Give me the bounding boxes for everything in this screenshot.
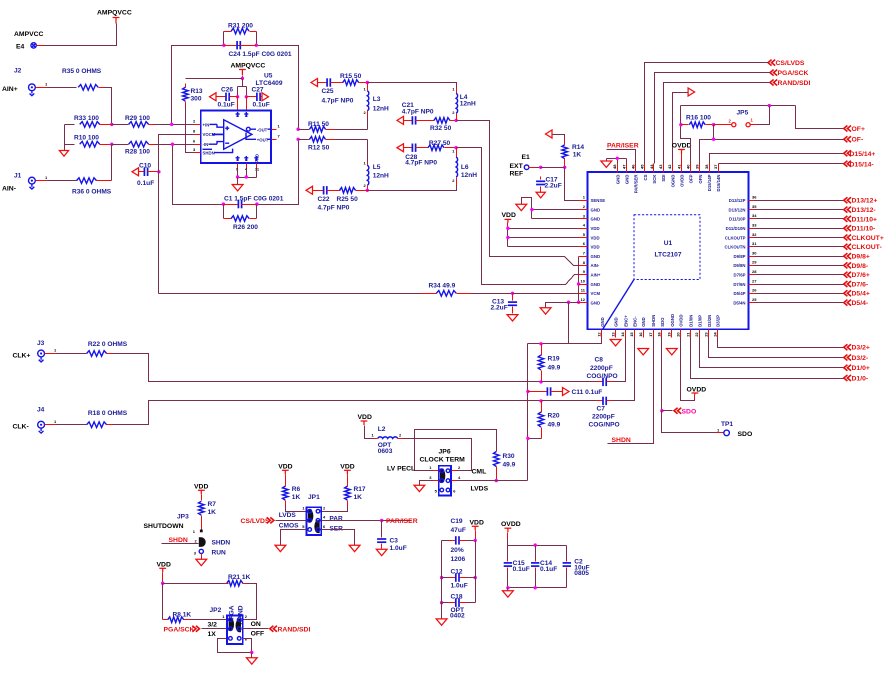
wire OVDD cap rail bottom (508, 587, 567, 589)
wire VOCM to C10 node and VCM net (159, 135, 195, 294)
svg-text:SCK: SCK (652, 174, 657, 184)
U1 pin 5 VDD (left) (579, 237, 588, 239)
svg-text:CLKOUTN: CLKOUTN (724, 245, 745, 250)
svg-text:ENC+: ENC+ (623, 315, 628, 327)
svg-text:SDO: SDO (660, 317, 665, 327)
svg-text:R7: R7 (208, 501, 217, 508)
net CLKOUT- (749, 246, 755, 248)
svg-text:1206: 1206 (451, 556, 466, 563)
node L5/R25 (366, 189, 369, 192)
svg-text:4.7pF NP0: 4.7pF NP0 (402, 109, 434, 116)
svg-text:OF+: OF+ (852, 126, 865, 133)
net D1/0- (691, 338, 844, 379)
svg-text:0.1uF: 0.1uF (513, 566, 530, 573)
U1 pin 41 OVDD (top) (681, 164, 683, 173)
svg-text:D7/6P: D7/6P (734, 273, 746, 278)
svg-text:J1: J1 (14, 173, 22, 180)
svg-text:SHUTDOWN: SHUTDOWN (144, 523, 184, 530)
svg-text:VDD: VDD (340, 463, 354, 470)
svg-text:2200pF: 2200pF (590, 365, 613, 372)
pin 6 -IN stub (195, 144, 201, 146)
svg-text:PAR/ISER: PAR/ISER (607, 142, 639, 149)
ADC U1 LTC2107 (588, 172, 749, 329)
svg-text:AMPVCC: AMPVCC (14, 31, 44, 38)
net D1/0+ (700, 338, 844, 368)
svg-text:JP6: JP6 (439, 448, 451, 455)
node C13/VCM (511, 292, 514, 295)
wire L3 bottom to -OUT row (R11) (367, 117, 369, 130)
svg-text:C25: C25 (322, 88, 334, 95)
svg-text:40: 40 (685, 164, 690, 169)
svg-text:R16 100: R16 100 (686, 115, 711, 122)
node VDD/R21/R8 (161, 582, 164, 585)
svg-text:D1/0-: D1/0- (852, 376, 869, 383)
wire L2 to JP6 pin 2 CML (404, 439, 472, 471)
svg-text:D1/0+: D1/0+ (852, 365, 870, 372)
svg-text:L2: L2 (378, 426, 386, 433)
svg-text:C11 0.1uF: C11 0.1uF (572, 389, 603, 396)
svg-text:D9/8+: D9/8+ (852, 254, 870, 261)
svg-text:0603: 0603 (378, 448, 393, 455)
wire OF- from R16/JP5 to pin 39 OFN and label (700, 125, 844, 164)
svg-text:VDD: VDD (470, 519, 484, 526)
svg-text:GND: GND (615, 175, 620, 185)
svg-text:1X: 1X (208, 631, 217, 638)
pin 7 +OUT stub (272, 139, 277, 141)
svg-text:CS/LVDS: CS/LVDS (241, 518, 270, 525)
svg-text:D3/2-: D3/2- (852, 355, 869, 362)
svg-text:GND: GND (591, 254, 601, 259)
net RAND/SDI to pin 43 (770, 80, 777, 86)
U1 pin 8 AIN- (left) (579, 265, 588, 267)
svg-text:JP5: JP5 (737, 110, 749, 117)
svg-text:COG/NPO: COG/NPO (589, 422, 620, 429)
ground (U1 pins 48,47) (601, 161, 612, 167)
svg-text:D11/D10N: D11/D10N (726, 226, 746, 231)
svg-text:AIN-: AIN- (591, 263, 600, 268)
wire VDD to R8 (162, 584, 164, 620)
ground (JP3) (196, 559, 207, 565)
svg-text:4.7pF NP0: 4.7pF NP0 (318, 204, 350, 211)
node E1/R14/SENSE (563, 166, 566, 169)
svg-text:PAR: PAR (329, 516, 343, 523)
svg-text:R22 0 OHMS: R22 0 OHMS (88, 341, 128, 348)
svg-text:49.9: 49.9 (503, 462, 516, 469)
wire JP1 pin 4 to PAR/SER net (322, 520, 382, 522)
node R30/LVDS row (495, 479, 498, 482)
svg-text:RAND/SDI: RAND/SDI (278, 626, 311, 633)
svg-text:OVDD: OVDD (679, 314, 684, 326)
wire JP6 pin 4 LVDS row to clock ground vertical (457, 480, 528, 482)
U1 pin ENC+ (bottom) (625, 330, 627, 338)
svg-text:C3: C3 (390, 537, 399, 544)
wire lower filter output to U1 AIN+ (457, 148, 588, 285)
svg-text:R15 50: R15 50 (340, 73, 362, 80)
svg-text:OVDD: OVDD (679, 175, 684, 187)
svg-text:VDD: VDD (278, 463, 292, 470)
svg-text:D1/0P: D1/0P (697, 315, 702, 327)
svg-text:D13/12N: D13/12N (729, 207, 746, 212)
svg-text:LTC2107: LTC2107 (655, 252, 682, 259)
ground (input bracket) (59, 151, 68, 157)
svg-text:LV PECL: LV PECL (387, 466, 415, 473)
wire U1 pin 13 GND to clock ground rail (528, 338, 602, 344)
svg-text:35: 35 (752, 204, 757, 209)
svg-text:21: 21 (685, 332, 690, 337)
svg-text:VDD: VDD (591, 235, 600, 240)
U1 pin D3/2N (bottom) (708, 330, 710, 338)
wire J1 to R36 (47, 180, 77, 182)
wire upper filter output to U1 AIN- (457, 121, 588, 266)
capacitor C11 0.1uF (526, 390, 529, 393)
U1 pin GND (bottom) (615, 330, 617, 338)
svg-text:E4: E4 (16, 44, 25, 51)
svg-text:D11/10P: D11/10P (729, 217, 746, 222)
net D9/8+ (749, 256, 755, 258)
svg-text:PAR/SER: PAR/SER (634, 174, 639, 194)
svg-text:VDD: VDD (194, 483, 208, 490)
svg-text:+OUT: +OUT (257, 137, 269, 142)
svg-text:49.9: 49.9 (548, 364, 561, 371)
svg-text:R30: R30 (503, 453, 515, 460)
svg-text:C7: C7 (597, 406, 606, 413)
wire U5 bottom pins to ground (238, 169, 257, 178)
net D15/14+ from pin 38 (710, 154, 844, 164)
node C10 / VOCM net (157, 170, 160, 173)
svg-text:CLOCK TERM: CLOCK TERM (420, 456, 466, 463)
off-page arrow (OGND pin 42) (688, 88, 695, 96)
svg-text:GND: GND (600, 317, 605, 327)
svg-text:D15/14+: D15/14+ (850, 151, 876, 158)
svg-text:43: 43 (658, 164, 663, 169)
svg-text:C26: C26 (221, 87, 233, 94)
svg-text:12nH: 12nH (461, 172, 477, 179)
pin 8 VOCM stub (195, 134, 201, 136)
svg-text:D9/8N: D9/8N (733, 263, 745, 268)
svg-text:OF-: OF- (852, 137, 864, 144)
U1 pin 37 D15/14N (top) (718, 164, 720, 173)
svg-text:OFF: OFF (251, 631, 265, 638)
net D5/4+ (749, 293, 755, 295)
wire SENSE to U1 pin 1 (565, 168, 588, 201)
svg-text:C24 1.5pF C0G 0201: C24 1.5pF C0G 0201 (229, 51, 292, 58)
svg-text:PGA/SCK: PGA/SCK (778, 70, 809, 77)
U1 pin 39 OFN (top) (699, 164, 701, 173)
ground (U1 bottom GND pin 14) (610, 340, 621, 346)
svg-text:C1 1.5pF C0G 0201: C1 1.5pF C0G 0201 (224, 196, 284, 203)
svg-text:24: 24 (712, 332, 717, 337)
svg-text:R32 50: R32 50 (430, 125, 452, 132)
svg-text:38: 38 (704, 164, 709, 169)
svg-text:SHDN: SHDN (203, 150, 215, 155)
wire CLK- to termination network (113, 401, 542, 425)
net label RAND/SDI (to JP2 pin 4) (243, 628, 269, 630)
U1 pin D1/0P (bottom) (699, 330, 701, 338)
U1 pin 9 AIN+ (left) (579, 274, 588, 276)
svg-text:GND: GND (624, 175, 629, 185)
svg-text:GND: GND (591, 300, 601, 305)
U1 pin 12 GND (left) (579, 302, 588, 304)
ground (JP6 pin 3) (414, 485, 425, 491)
svg-text:AMPQVCC: AMPQVCC (231, 63, 266, 70)
svg-text:ENC-: ENC- (632, 316, 637, 327)
svg-text:VDD: VDD (591, 226, 600, 231)
svg-text:13: 13 (610, 332, 615, 337)
svg-text:1.0uF: 1.0uF (390, 545, 407, 552)
svg-text:AIN-: AIN- (2, 186, 16, 193)
U1 pin 1 SENSE (left) (579, 200, 588, 202)
svg-text:R29 100: R29 100 (125, 115, 150, 122)
pin 1 -OUT stub (272, 129, 277, 131)
svg-text:-OUT: -OUT (257, 127, 268, 132)
svg-text:12nH: 12nH (373, 172, 389, 179)
svg-text:D5/4-: D5/4- (852, 300, 869, 307)
svg-text:C12: C12 (451, 568, 463, 575)
net label OF+ (844, 126, 851, 132)
svg-text:R34 49.9: R34 49.9 (429, 283, 456, 290)
U1 pin 3 GND (left) (579, 218, 588, 220)
net label OF- (844, 136, 851, 142)
wire U1 GND pins 2,3 bracket (522, 198, 588, 219)
svg-text:1K: 1K (354, 494, 363, 501)
U1 pin 40 OFP (top) (690, 164, 692, 173)
ground (C19 stack) (436, 619, 447, 625)
svg-text:GND: GND (614, 317, 619, 327)
svg-text:D1/0N: D1/0N (689, 315, 694, 327)
wire pin12 node down to clock ground rail (568, 303, 570, 344)
svg-text:D3/2+: D3/2+ (852, 345, 870, 352)
wire R20 bottom to ground vertical (528, 438, 542, 440)
svg-text:PAR/ISER: PAR/ISER (386, 518, 418, 525)
svg-text:49.9: 49.9 (548, 421, 561, 428)
U1 pin 11 VCM (left) (579, 293, 588, 295)
svg-text:22: 22 (694, 332, 699, 337)
svg-text:2.2uF: 2.2uF (491, 305, 508, 312)
svg-text:CLKOUT-: CLKOUT- (852, 244, 882, 251)
wire VCM net (159, 293, 421, 295)
svg-text:SHDN: SHDN (212, 539, 231, 546)
svg-text:OVDD: OVDD (672, 142, 692, 149)
wire CLK+ to termination network (113, 354, 542, 382)
svg-text:LVDS: LVDS (471, 485, 489, 492)
svg-text:D5/4P: D5/4P (734, 291, 746, 296)
net D3/2+ from bottom pin (718, 338, 844, 348)
ground (JP1 pin 5) (275, 545, 286, 551)
svg-text:D13/12P: D13/12P (729, 198, 746, 203)
svg-text:34: 34 (752, 213, 757, 218)
U1 pin SDO (bottom) (661, 330, 663, 338)
U1 pin 43 SDI (top) (663, 164, 665, 173)
svg-text:R31 200: R31 200 (228, 23, 253, 30)
svg-text:R35 0 OHMS: R35 0 OHMS (62, 68, 102, 75)
svg-text:LVDS: LVDS (279, 512, 297, 519)
svg-text:D3/2P: D3/2P (716, 315, 721, 327)
node -OUT feedback (296, 128, 299, 131)
ground (U1 pins 2,3) (516, 204, 527, 210)
svg-text:SENSE: SENSE (591, 198, 606, 203)
svg-text:SHDN: SHDN (612, 437, 631, 444)
svg-text:GND: GND (591, 217, 601, 222)
svg-text:AMPQVCC: AMPQVCC (97, 10, 132, 17)
svg-text:R13: R13 (191, 88, 203, 95)
svg-text:48: 48 (612, 164, 617, 169)
svg-text:OFN: OFN (698, 175, 703, 184)
svg-text:OVDD: OVDD (501, 521, 521, 528)
U1 pin D1/0N (bottom) (690, 330, 692, 338)
svg-text:CLK-: CLK- (13, 424, 29, 431)
svg-text:CS/LVDS: CS/LVDS (776, 60, 805, 67)
svg-text:R36 0 OHMS: R36 0 OHMS (72, 189, 112, 196)
ground (C17) (536, 192, 545, 198)
svg-text:VDD: VDD (502, 212, 516, 219)
svg-text:VCM: VCM (591, 291, 601, 296)
wire OF+ to R16 and pin 40 OFP (681, 106, 691, 164)
U1 pin 7 GND (left) (579, 256, 588, 258)
svg-text:RAND/SDI: RAND/SDI (778, 80, 811, 87)
svg-text:VDD: VDD (157, 561, 171, 568)
svg-text:GND: GND (641, 317, 646, 327)
wire R17 to JP1 pin 2 (322, 506, 348, 512)
wire U1 GND pins 48,47 to ground (607, 159, 627, 164)
svg-text:R26 200: R26 200 (233, 224, 258, 231)
svg-text:L6: L6 (461, 164, 469, 171)
U1 pin 46 PAR/SER (top) (635, 164, 637, 173)
svg-text:D7/6+: D7/6+ (852, 272, 870, 279)
wire J3 to R22 (56, 353, 87, 355)
wire J4 to R18 (56, 424, 87, 426)
svg-text:CMOS: CMOS (279, 523, 299, 530)
svg-text:0.1uF: 0.1uF (218, 102, 235, 109)
wire JP6 pin 1 to R30 loop (415, 430, 497, 471)
svg-text:D7/6N: D7/6N (733, 282, 745, 287)
svg-text:R28 100: R28 100 (125, 149, 150, 156)
svg-text:R20: R20 (548, 412, 560, 419)
wire R15 node to L4 top (368, 83, 457, 89)
U1 pin 2 GND (left) (579, 209, 588, 211)
U1 pin 4 VDD (left) (579, 228, 588, 230)
wire R13 to U5 SHDN pin (186, 106, 195, 153)
U1 pin 45 CS (top) (644, 164, 646, 173)
U1 pin OVDD (bottom) (680, 330, 682, 338)
svg-text:42: 42 (667, 164, 672, 169)
wire R29 to U5 +IN (155, 124, 195, 126)
wire JP1 pin 6 to ground (322, 530, 355, 546)
ground (JP1 pin 6) (349, 545, 360, 551)
net D5/4- (749, 302, 755, 304)
svg-text:GND: GND (591, 282, 601, 287)
wire AIN- vertical from R36 (111, 145, 113, 181)
wire R35 to node AIN+ vertical (105, 88, 112, 125)
svg-text:33: 33 (752, 223, 757, 228)
svg-text:CLKOUT+: CLKOUT+ (852, 235, 884, 242)
U1 pin 47 GND (top) (626, 164, 628, 173)
wire JP1 pin 5 to ground (281, 530, 307, 546)
svg-text:C18: C18 (451, 594, 463, 601)
net D11/10- (749, 228, 755, 230)
net D7/6+ (749, 274, 755, 276)
wire R12 to L5 top (367, 140, 369, 163)
svg-text:SHDN: SHDN (651, 315, 656, 327)
wire JP2 pins 5,6 to ground (218, 639, 252, 653)
net D9/8- (749, 265, 755, 267)
ground (JP2) (246, 658, 257, 664)
svg-text:U1: U1 (664, 240, 673, 247)
svg-text:32: 32 (752, 232, 757, 237)
wire R21 to JP2 pin 2 (243, 584, 257, 620)
U1 pin 6 VDD (left) (579, 246, 588, 248)
svg-text:D9/8P: D9/8P (734, 254, 746, 259)
svg-text:39: 39 (695, 164, 700, 169)
svg-text:U5: U5 (264, 73, 273, 80)
U1 pin 10 GND (left) (579, 284, 588, 286)
svg-text:1.0uF: 1.0uF (451, 583, 468, 590)
net D13/12+ (749, 200, 755, 202)
U1 pin 42 OGND (top) (672, 164, 674, 173)
svg-text:14: 14 (620, 332, 625, 337)
svg-text:JP1: JP1 (308, 494, 320, 501)
ground (OVDD caps) (503, 591, 514, 597)
svg-text:20: 20 (676, 332, 681, 337)
svg-text:15: 15 (629, 332, 634, 337)
node R19/C8/CLK+ (539, 380, 542, 383)
ground (U1 bottom OGND pin 20) (666, 349, 677, 355)
svg-text:46: 46 (630, 164, 635, 169)
svg-text:D13/12+: D13/12+ (852, 198, 878, 205)
pin 2 +IN stub (195, 124, 201, 126)
svg-text:R27 50: R27 50 (429, 140, 451, 147)
svg-text:0805: 0805 (574, 570, 589, 577)
svg-text:3/2: 3/2 (208, 621, 218, 628)
wire SDO to test point TP1 (662, 411, 717, 433)
svg-text:R17: R17 (354, 486, 366, 493)
svg-text:+IN: +IN (203, 122, 210, 127)
wire VDD bracket pins 4,5,6 (508, 229, 588, 247)
node R32/L4 (454, 119, 457, 122)
U1 pin D3/2P (bottom) (717, 330, 719, 338)
svg-text:37: 37 (713, 164, 718, 169)
svg-text:CS: CS (643, 174, 648, 180)
svg-text:1K: 1K (573, 151, 582, 158)
off-page arrow (R14 pull-up) (546, 130, 553, 138)
svg-text:47: 47 (621, 164, 626, 169)
svg-text:SDO: SDO (738, 431, 753, 438)
U1 pin 48 GND (top) (617, 164, 619, 173)
U1 pin GND (bottom) (601, 330, 603, 338)
node junction AIN- / R10 / R28 (110, 143, 113, 146)
svg-text:CLK+: CLK+ (13, 353, 31, 360)
node +IN feedback (170, 123, 173, 126)
svg-text:R6: R6 (292, 486, 301, 493)
svg-text:JP2: JP2 (210, 607, 222, 614)
svg-text:RUN: RUN (212, 549, 227, 556)
svg-text:C22: C22 (318, 196, 330, 203)
svg-text:COG/NPO: COG/NPO (587, 373, 618, 380)
svg-text:20%: 20% (451, 547, 464, 554)
svg-text:1K: 1K (208, 509, 217, 516)
wire AMPQVCC to E4 (44, 24, 117, 46)
wire VCM to U1 pin 11 (513, 293, 588, 295)
svg-text:J3: J3 (37, 340, 45, 347)
svg-text:10: 10 (581, 278, 586, 283)
node R27/L6 (454, 146, 457, 149)
svg-text:D15/14-: D15/14- (850, 161, 874, 168)
ground (U1 bottom GND pin 17) (638, 349, 649, 355)
svg-text:CML: CML (472, 468, 487, 475)
U1 pin SHDN (bottom) (653, 330, 655, 338)
svg-text:J4: J4 (37, 407, 45, 414)
svg-text:29: 29 (752, 260, 757, 265)
svg-text:D5/4N: D5/4N (733, 300, 745, 305)
